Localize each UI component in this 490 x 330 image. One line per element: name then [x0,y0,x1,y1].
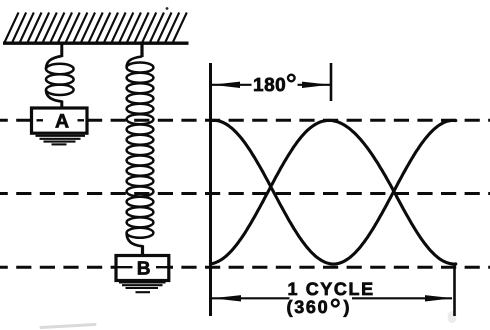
wave from mass B (starts at bottom) [210,120,455,264]
180-degree dimension line (right segment) [298,84,331,86]
spring A top hook [46,56,62,69]
svg-text:): ) [344,297,350,317]
centerline tick inside box B (left) [116,266,133,268]
180-degree left arrowhead [212,82,240,88]
degree ring for 360 [332,300,339,307]
spring A bottom hook [46,90,62,102]
spring B bottom hook [127,233,143,246]
180-degree right arrowhead [302,82,330,88]
spring A top stub [60,43,63,57]
spring B top stub [140,43,143,57]
svg-text:A: A [55,110,69,132]
cycle right arrowhead [425,295,453,301]
cycle dimension line (left segment) [212,297,290,299]
180-degree dimension line (left segment) [211,84,252,86]
faint smudge under right tick [448,311,457,323]
cycle dimension line (right segment) [352,297,452,299]
ground hatch lines under A [36,136,86,145]
dashed midline (center) [0,192,490,195]
mass box A [32,108,88,133]
svg-text:(360: (360 [287,297,330,317]
spring B bottom stub [141,245,144,256]
cycle right tick [453,264,456,317]
wave from mass A (starts at top) [210,120,455,264]
faint smudge bottom-left [41,325,95,328]
degree ring for 180 [288,75,295,82]
stray dot artifact [166,7,169,10]
dashed rest-position line (top, through mass A) [0,119,490,122]
centerline tick inside box B (right) [156,266,169,268]
svg-text:1 CYCLE: 1 CYCLE [288,279,375,299]
mass box B [116,256,169,281]
ceiling baseline [3,42,189,45]
centerline tick inside box A (left) [37,119,44,121]
cycle left arrowhead [213,295,242,301]
svg-text:180: 180 [253,75,286,96]
ceiling hatching [4,13,187,44]
spring B top hook [127,57,142,68]
spring B coil [127,63,154,238]
centerline tick inside box A (right) [78,119,85,121]
spring A bottom stub [60,101,63,109]
ground hatch lines under B [119,282,166,292]
spring A coil [46,64,74,95]
dashed rest-position line (bottom, through mass B) [0,266,490,269]
svg-text:B: B [137,259,151,280]
180-degree right tick [330,63,333,101]
vertical axis [209,63,212,316]
